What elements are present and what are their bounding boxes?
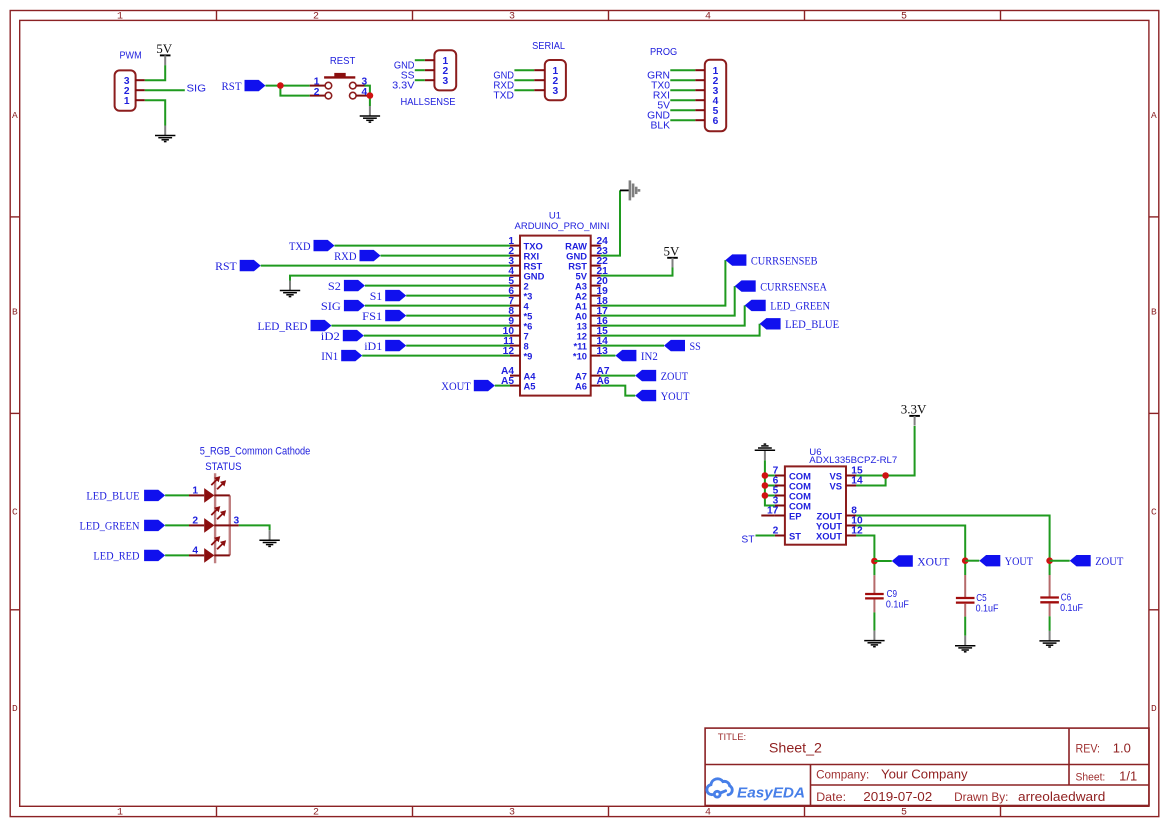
svg-text:ARDUINO_PRO_MINI: ARDUINO_PRO_MINI xyxy=(515,221,610,232)
svg-text:*9: *9 xyxy=(524,350,533,361)
svg-text:D: D xyxy=(12,703,18,714)
svg-text:3.3V: 3.3V xyxy=(901,401,927,416)
svg-text:5_RGB_Common Cathode: 5_RGB_Common Cathode xyxy=(200,446,311,458)
svg-text:SERIAL: SERIAL xyxy=(532,41,565,52)
svg-text:B: B xyxy=(12,306,18,317)
svg-text:1: 1 xyxy=(117,807,123,818)
svg-text:A: A xyxy=(1151,110,1157,121)
svg-text:1: 1 xyxy=(192,486,198,497)
svg-text:VS: VS xyxy=(829,480,842,491)
svg-text:RST: RST xyxy=(222,79,243,93)
svg-text:SS: SS xyxy=(690,339,701,353)
svg-text:ZOUT: ZOUT xyxy=(661,369,689,383)
svg-text:LED_BLUE: LED_BLUE xyxy=(86,489,139,503)
svg-text:2019-07-02: 2019-07-02 xyxy=(863,790,932,804)
svg-text:2: 2 xyxy=(314,87,320,98)
svg-text:4: 4 xyxy=(705,807,711,818)
svg-text:0.1uF: 0.1uF xyxy=(1060,603,1083,614)
svg-text:2: 2 xyxy=(313,12,319,23)
svg-text:LED_BLUE: LED_BLUE xyxy=(785,317,839,331)
svg-text:5: 5 xyxy=(901,807,907,818)
svg-text:PWM: PWM xyxy=(120,51,142,62)
svg-text:arreolaedward: arreolaedward xyxy=(1018,790,1105,804)
svg-text:Sheet:: Sheet: xyxy=(1076,771,1106,783)
svg-text:RST: RST xyxy=(215,259,237,273)
svg-text:5V: 5V xyxy=(156,41,173,56)
svg-text:A6: A6 xyxy=(575,380,587,391)
svg-text:XOUT: XOUT xyxy=(816,530,842,541)
svg-text:S1: S1 xyxy=(370,289,383,303)
svg-text:EP: EP xyxy=(789,510,802,521)
svg-text:Sheet_2: Sheet_2 xyxy=(769,739,822,755)
svg-text:YOUT: YOUT xyxy=(1005,554,1034,568)
svg-text:PROG: PROG xyxy=(650,47,677,58)
svg-text:LED_RED: LED_RED xyxy=(258,319,308,333)
svg-text:ADXL335BCPZ-RL7: ADXL335BCPZ-RL7 xyxy=(809,455,897,466)
svg-text:REV:: REV: xyxy=(1076,744,1101,756)
svg-text:Your Company: Your Company xyxy=(881,768,968,782)
svg-text:ST: ST xyxy=(789,530,801,541)
svg-text:C9: C9 xyxy=(887,589,898,600)
svg-text:IN1: IN1 xyxy=(321,349,338,363)
svg-text:Company:: Company: xyxy=(816,769,869,781)
svg-text:C: C xyxy=(1151,506,1157,517)
svg-text:LED_GREEN: LED_GREEN xyxy=(80,519,140,533)
svg-text:4: 4 xyxy=(705,12,711,23)
svg-text:3: 3 xyxy=(362,76,368,87)
svg-text:6: 6 xyxy=(713,116,719,127)
svg-text:3: 3 xyxy=(443,76,449,87)
svg-text:CURRSENSEA: CURRSENSEA xyxy=(760,279,827,293)
svg-text:iD1: iD1 xyxy=(364,339,382,353)
svg-text:C6: C6 xyxy=(1061,593,1072,604)
svg-text:3: 3 xyxy=(553,86,559,97)
svg-text:5: 5 xyxy=(901,12,907,23)
svg-text:2: 2 xyxy=(313,807,319,818)
svg-text:C: C xyxy=(12,506,18,517)
svg-text:Date:: Date: xyxy=(816,792,846,804)
svg-text:CURRSENSEB: CURRSENSEB xyxy=(751,253,818,267)
svg-text:C5: C5 xyxy=(976,593,987,604)
svg-text:YOUT: YOUT xyxy=(661,389,690,403)
svg-text:RXD: RXD xyxy=(334,249,357,263)
svg-text:1: 1 xyxy=(117,12,123,23)
svg-text:1/1: 1/1 xyxy=(1119,769,1137,783)
svg-text:S2: S2 xyxy=(328,279,341,293)
svg-text:D: D xyxy=(1151,703,1157,714)
svg-text:3.3V: 3.3V xyxy=(392,80,415,91)
svg-text:HALLSENSE: HALLSENSE xyxy=(401,97,456,108)
svg-text:iD2: iD2 xyxy=(321,329,340,343)
svg-text:XOUT: XOUT xyxy=(917,554,950,568)
svg-text:1: 1 xyxy=(124,96,130,107)
svg-text:IN2: IN2 xyxy=(641,349,658,363)
svg-text:BLK: BLK xyxy=(651,120,671,131)
svg-text:XOUT: XOUT xyxy=(441,379,471,393)
svg-text:1: 1 xyxy=(314,76,320,87)
svg-text:TITLE:: TITLE: xyxy=(718,732,747,743)
svg-text:4: 4 xyxy=(192,546,198,557)
svg-text:A5: A5 xyxy=(524,380,536,391)
svg-text:EasyEDA: EasyEDA xyxy=(737,785,805,802)
svg-text:SIG: SIG xyxy=(187,83,207,94)
svg-text:0.1uF: 0.1uF xyxy=(976,604,999,615)
svg-text:1.0: 1.0 xyxy=(1113,741,1131,756)
svg-text:3: 3 xyxy=(509,12,515,23)
svg-text:A: A xyxy=(12,110,18,121)
svg-text:4: 4 xyxy=(362,87,368,98)
svg-text:FS1: FS1 xyxy=(362,309,382,323)
svg-text:2: 2 xyxy=(192,516,198,527)
svg-text:STATUS: STATUS xyxy=(205,461,241,473)
svg-text:ST: ST xyxy=(741,535,755,546)
svg-text:3: 3 xyxy=(509,807,515,818)
svg-text:LED_RED: LED_RED xyxy=(93,549,139,563)
svg-text:LED_GREEN: LED_GREEN xyxy=(770,299,830,313)
svg-text:*10: *10 xyxy=(573,350,587,361)
svg-text:ZOUT: ZOUT xyxy=(1095,554,1124,568)
svg-text:TXD: TXD xyxy=(493,90,514,101)
svg-text:B: B xyxy=(1151,306,1157,317)
svg-text:0.1uF: 0.1uF xyxy=(886,600,909,611)
svg-text:TXD: TXD xyxy=(289,239,311,253)
svg-text:REST: REST xyxy=(330,56,356,67)
svg-text:SIG: SIG xyxy=(321,299,341,313)
svg-text:5V: 5V xyxy=(664,243,681,258)
svg-text:3: 3 xyxy=(234,515,240,526)
svg-text:Drawn By:: Drawn By: xyxy=(954,792,1008,804)
